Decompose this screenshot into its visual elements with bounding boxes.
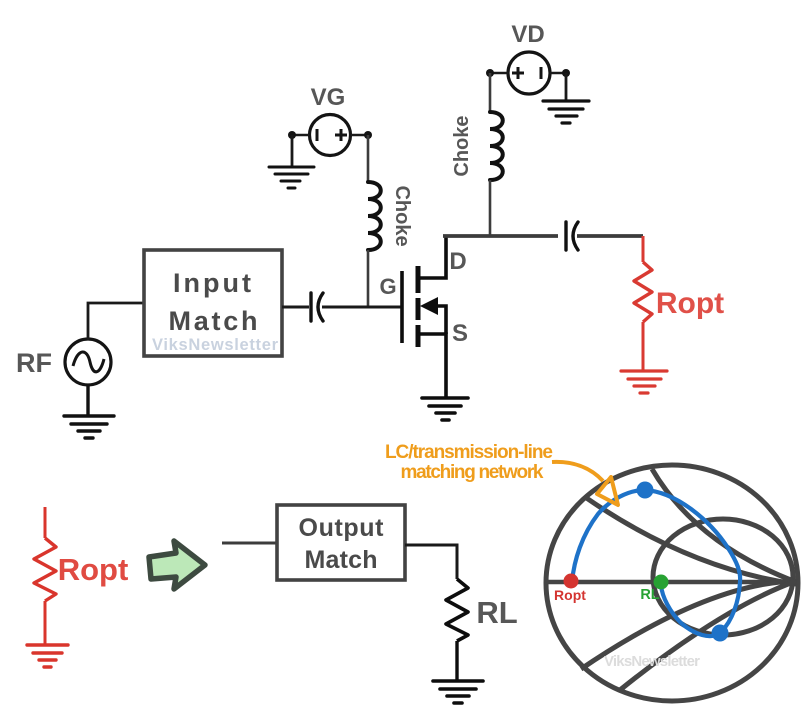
wire RF down to ground <box>86 385 89 416</box>
wire to output match <box>222 542 277 545</box>
wire VG left to node <box>291 134 309 137</box>
body arrow of M1 <box>420 297 438 315</box>
smith chart outer circle <box>546 465 798 701</box>
RF source <box>65 339 111 385</box>
svg-text:ViksNewsletter: ViksNewsletter <box>152 336 279 354</box>
smith chart horizontal axis <box>546 580 798 585</box>
ground (RL) <box>433 681 483 703</box>
svg-text:Output: Output <box>299 514 385 542</box>
wire RL to ground <box>455 641 458 681</box>
inductor L1 (gate choke) <box>368 182 381 250</box>
wire node down to choke L1 <box>367 135 370 182</box>
block Input Match <box>144 250 282 356</box>
arrow (green transform arrow) <box>149 541 205 589</box>
resistor RL <box>446 579 468 641</box>
svg-text:RL: RL <box>640 587 659 603</box>
svg-text:D: D <box>449 248 466 275</box>
node (VG right) <box>364 131 372 139</box>
wire node down to ground <box>565 73 568 101</box>
transistor M1 (MOSFET) <box>402 236 446 398</box>
inductor L2 (drain choke) <box>490 112 503 180</box>
ground (Ropt, red) <box>621 371 667 393</box>
node (VD right) <box>562 69 570 77</box>
svg-text:VD: VD <box>511 21 544 48</box>
wire capacitor C2 to Ropt <box>577 234 643 238</box>
matching trajectory (blue) <box>572 490 740 636</box>
svg-text:Choke: Choke <box>451 115 473 176</box>
svg-text:Ropt: Ropt <box>656 287 724 320</box>
wire node down to ground <box>291 135 294 167</box>
node blue (bottom of trajectory) <box>712 625 729 642</box>
smith chart +j0.5 arc <box>585 497 796 584</box>
smith chart R=1 circle <box>653 519 793 635</box>
wire output match to RL <box>405 545 457 579</box>
ground (RF) <box>64 416 114 438</box>
svg-text:RF: RF <box>16 348 52 378</box>
smith chart -j0.5 arc <box>581 581 796 669</box>
annotation arrow (orange) <box>552 462 603 481</box>
smith chart -j1 arc <box>620 581 796 690</box>
svg-text:VG: VG <box>311 84 346 111</box>
ground (VD) <box>543 101 589 123</box>
block Output Match <box>277 505 405 580</box>
svg-text:ViksNewsletter: ViksNewsletter <box>604 653 700 670</box>
svg-text:G: G <box>379 274 396 299</box>
wire RF up and right to input match <box>88 303 144 340</box>
ground (source of M1) <box>422 398 468 420</box>
svg-text:Ropt: Ropt <box>554 587 586 603</box>
svg-text:Match: Match <box>169 306 258 336</box>
resistor Ropt (bottom, red) <box>34 507 56 644</box>
voltage source VG <box>310 115 351 156</box>
node blue (top of trajectory) <box>637 482 654 499</box>
wire choke L2 down to drain rail <box>489 180 492 236</box>
node Ropt (red dot) <box>564 574 579 589</box>
voltage source VD <box>508 52 550 94</box>
wire input match to capacitor C1 <box>282 306 309 309</box>
svg-text:Match: Match <box>305 546 378 574</box>
wire VD right to node <box>550 72 567 75</box>
wire VD left to node <box>489 72 508 75</box>
node RL (green dot) <box>654 575 669 590</box>
wire choke L1 down to gate line <box>367 250 370 307</box>
smith chart +j1 arc <box>652 469 796 582</box>
node (VG left) <box>288 131 296 139</box>
svg-text:Choke: Choke <box>391 185 413 246</box>
wire capacitor C1 to gate <box>322 306 401 309</box>
wire node down to choke L2 <box>489 73 492 112</box>
svg-text:Ropt: Ropt <box>58 552 129 587</box>
svg-text:RL: RL <box>476 595 517 630</box>
capacitor C2 (output coupling) <box>566 222 578 250</box>
ground (VG) <box>269 167 314 188</box>
svg-text:LC/transmission-line: LC/transmission-line <box>385 442 553 463</box>
resistor Ropt (top, red) <box>634 236 652 370</box>
wire VG right to node <box>351 134 369 137</box>
wire drain rail <box>443 234 558 238</box>
capacitor C1 (input coupling) <box>311 293 323 321</box>
node (VD left) <box>486 69 494 77</box>
ground (bottom Ropt, red) <box>27 645 68 667</box>
svg-text:S: S <box>452 320 468 347</box>
svg-text:matching network: matching network <box>401 462 544 483</box>
